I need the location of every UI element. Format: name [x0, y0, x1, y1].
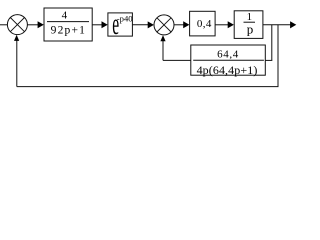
output wire with arrow: [263, 21, 296, 28]
svg-text:64,4: 64,4: [217, 49, 239, 61]
input wire: [0, 24, 8, 26]
wire W1 to delay block W2: [92, 21, 108, 28]
svg-text:-p40: -p40: [117, 14, 133, 24]
svg-text:p: p: [247, 21, 254, 36]
svg-text:4p(64,4p+1): 4p(64,4p+1): [197, 63, 258, 77]
wire W2 to summing junction S2: [132, 21, 154, 28]
summing junction S1: [7, 15, 27, 35]
wire S2 to block W3: [174, 21, 189, 28]
block W4: 1/p: [234, 11, 263, 39]
block W2: delay e^-p40: [108, 9, 133, 42]
svg-text:92p+1: 92p+1: [51, 24, 87, 36]
inner feedback tap wire: [265, 25, 272, 61]
svg-text:0,4: 0,4: [197, 18, 212, 30]
svg-text:4: 4: [62, 10, 68, 22]
block W3: 0,4: [190, 11, 216, 36]
outer feedback tap wire: [14, 25, 279, 87]
inner feedback wire to S2: [160, 35, 190, 60]
block W1: 4/(92p+1): [44, 8, 92, 41]
wire W3 to block W4: [215, 21, 234, 28]
block W5: 64,4 / 4p(64,4p+1): [191, 45, 265, 77]
wire S1 to block W1: [27, 21, 43, 28]
summing junction S2: [154, 15, 174, 35]
